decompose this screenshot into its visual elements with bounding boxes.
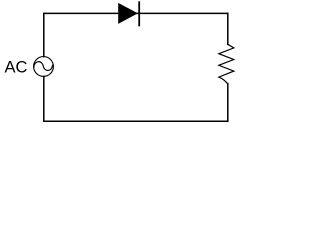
- svg-text:AC: AC: [5, 59, 28, 77]
